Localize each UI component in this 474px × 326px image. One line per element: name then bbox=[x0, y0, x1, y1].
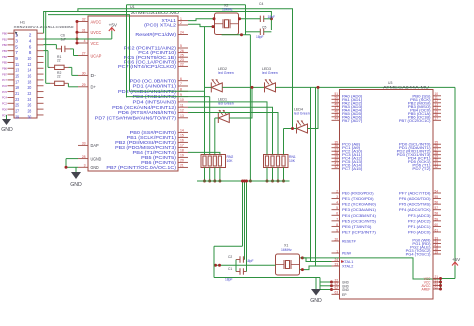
svg-text:RESET#: RESET# bbox=[342, 239, 356, 244]
svg-text:19: 19 bbox=[15, 85, 19, 90]
wire RN2 leg2 bbox=[209, 97, 211, 155]
svg-text:22: 22 bbox=[28, 91, 32, 96]
svg-text:23: 23 bbox=[180, 58, 184, 62]
LED LED3 bbox=[262, 67, 278, 92]
svg-text:32: 32 bbox=[82, 18, 86, 22]
wire RN2 leg1 bbox=[204, 27, 206, 155]
svg-text:60: 60 bbox=[435, 223, 439, 227]
wire RN1 leg4 bbox=[283, 129, 285, 155]
svg-text:9: 9 bbox=[336, 228, 338, 232]
svg-text:21: 21 bbox=[15, 91, 19, 96]
svg-text:5: 5 bbox=[180, 44, 182, 48]
svg-text:AREF: AREF bbox=[422, 287, 431, 292]
svg-text:PB4: PB4 bbox=[2, 55, 7, 59]
wire +5V red feed U1 bbox=[76, 20, 79, 45]
svg-text:8: 8 bbox=[336, 223, 338, 227]
svg-text:PF5 (ADC5/TMS): PF5 (ADC5/TMS) bbox=[399, 202, 431, 207]
svg-text:PB7 (PCINT7/OC.0A/OC.1C): PB7 (PCINT7/OC.0A/OC.1C) bbox=[106, 165, 176, 170]
svg-text:2: 2 bbox=[29, 33, 32, 38]
svg-text:PG4 (TOSC1): PG4 (TOSC1) bbox=[406, 252, 432, 257]
svg-text:22: 22 bbox=[57, 75, 61, 79]
svg-text:5: 5 bbox=[336, 206, 338, 210]
svg-text:14: 14 bbox=[28, 68, 32, 73]
svg-text:30: 30 bbox=[28, 114, 32, 119]
svg-text:C2: C2 bbox=[228, 255, 232, 259]
svg-text:29: 29 bbox=[82, 83, 86, 87]
wire LED1 cathode bbox=[215, 117, 219, 119]
svg-text:XTAL2: XTAL2 bbox=[342, 264, 354, 269]
svg-text:GND: GND bbox=[1, 127, 13, 133]
svg-text:24: 24 bbox=[28, 97, 32, 102]
svg-text:PC7 (A15): PC7 (A15) bbox=[342, 166, 363, 171]
wire RN1 leg3 / PD6 bbox=[188, 113, 278, 155]
svg-text:20: 20 bbox=[334, 237, 338, 241]
svg-text:58: 58 bbox=[435, 212, 439, 216]
svg-text:15: 15 bbox=[180, 134, 184, 138]
svg-text:7: 7 bbox=[336, 217, 338, 221]
svg-text:DAP: DAP bbox=[91, 143, 99, 148]
wire PD2 strike bbox=[130, 90, 205, 92]
wire VCC trunk bbox=[302, 258, 440, 279]
svg-text:12: 12 bbox=[28, 62, 32, 67]
svg-text:24: 24 bbox=[180, 31, 184, 35]
svg-text:20: 20 bbox=[28, 85, 32, 90]
svg-text:PD5 (XCK/AIN4/PCINT12): PD5 (XCK/AIN4/PCINT12) bbox=[112, 105, 176, 110]
svg-text:led Green: led Green bbox=[218, 71, 234, 75]
wire XTAL1 riser bbox=[310, 87, 312, 261]
svg-text:PE4 (OC3B/INT4): PE4 (OC3B/INT4) bbox=[342, 213, 377, 218]
svg-text:1: 1 bbox=[336, 249, 338, 253]
wire bottom frame bbox=[214, 246, 320, 277]
svg-text:27: 27 bbox=[82, 52, 86, 56]
svg-text:1: 1 bbox=[15, 33, 18, 38]
wire +5V rail right bbox=[439, 87, 455, 290]
svg-text:PF2 (ADC2): PF2 (ADC2) bbox=[408, 218, 431, 223]
power +5V (U2) bbox=[452, 257, 461, 266]
svg-text:6: 6 bbox=[180, 77, 182, 81]
wire trunk T1 bbox=[78, 9, 297, 129]
svg-text:21: 21 bbox=[180, 164, 184, 168]
wire XTAL2 riser bbox=[315, 87, 317, 266]
svg-text:18: 18 bbox=[28, 79, 32, 84]
svg-text:PC2: PC2 bbox=[2, 102, 8, 106]
U2 left pins bbox=[332, 92, 377, 297]
svg-text:33: 33 bbox=[82, 142, 86, 146]
svg-text:7: 7 bbox=[180, 82, 182, 86]
svg-text:PC7: PC7 bbox=[2, 78, 8, 82]
LED LED4 bbox=[294, 108, 310, 134]
svg-text:3: 3 bbox=[15, 38, 18, 43]
svg-text:57: 57 bbox=[435, 206, 439, 210]
svg-text:D-: D- bbox=[91, 73, 97, 78]
svg-text:28: 28 bbox=[82, 155, 86, 159]
svg-text:UGND: UGND bbox=[91, 156, 102, 161]
svg-text:D+: D+ bbox=[91, 85, 97, 90]
U1 left pins bbox=[78, 18, 102, 170]
wire +5V rail bbox=[44, 38, 112, 40]
svg-text:PF6 (ADC6/TDO): PF6 (ADC6/TDO) bbox=[399, 196, 431, 201]
svg-text:44: 44 bbox=[334, 117, 338, 121]
wire C1 right drop bbox=[245, 180, 248, 272]
svg-text:12: 12 bbox=[180, 109, 184, 113]
wire caps left join bbox=[235, 260, 237, 272]
svg-text:PD6 (RTS#/AIN5/INT6): PD6 (RTS#/AIN5/INT6) bbox=[118, 110, 177, 115]
svg-text:18pF: 18pF bbox=[246, 259, 254, 263]
svg-text:AVCC: AVCC bbox=[91, 19, 102, 24]
LED LED2 bbox=[211, 67, 233, 92]
op-amp U1 ATMEGA16U2-MU box bbox=[88, 5, 179, 171]
wire LED4 cathode bbox=[284, 127, 297, 130]
svg-text:GND: GND bbox=[91, 165, 100, 170]
wire X2 ground bbox=[222, 5, 251, 37]
svg-text:3: 3 bbox=[336, 195, 338, 199]
svg-text:4: 4 bbox=[336, 201, 338, 205]
resistor network RN2 bbox=[201, 155, 233, 183]
svg-text:UCAP: UCAP bbox=[91, 53, 102, 58]
svg-text:23: 23 bbox=[15, 97, 19, 102]
svg-text:18: 18 bbox=[180, 149, 184, 153]
wire LED2 cathode bbox=[205, 86, 212, 88]
svg-text:PE7 (ICP3/INT7): PE7 (ICP3/INT7) bbox=[342, 229, 377, 234]
wire LED4 anode bbox=[308, 86, 320, 129]
crystal X2 bbox=[215, 3, 239, 34]
svg-text:H1: H1 bbox=[20, 20, 26, 25]
wire R1/D- bbox=[44, 51, 79, 76]
wire X1 left pad bbox=[214, 264, 276, 267]
svg-text:14: 14 bbox=[180, 129, 184, 133]
wire trunk T0 bbox=[127, 4, 246, 6]
capacitor C2 bbox=[228, 255, 254, 263]
svg-text:PF4 (ADC4/TCK): PF4 (ADC4/TCK) bbox=[399, 207, 431, 212]
LED LED1 bbox=[218, 98, 234, 124]
wire trunk T3 bbox=[48, 15, 130, 92]
svg-text:31: 31 bbox=[82, 29, 86, 33]
svg-text:PD1 (AIN0/INT1): PD1 (AIN0/INT1) bbox=[133, 84, 177, 89]
wire ground trunk bbox=[197, 180, 290, 182]
svg-text:PD0: PD0 bbox=[2, 107, 8, 111]
svg-text:1uF: 1uF bbox=[61, 38, 67, 42]
svg-text:63: 63 bbox=[334, 291, 338, 295]
svg-text:C1: C1 bbox=[228, 267, 232, 271]
svg-text:25: 25 bbox=[15, 103, 19, 108]
svg-text:PB1: PB1 bbox=[2, 37, 7, 41]
svg-text:PB0: PB0 bbox=[2, 32, 7, 36]
svg-text:EP: EP bbox=[342, 292, 347, 297]
svg-text:PE1 (TXD0/PDI): PE1 (TXD0/PDI) bbox=[342, 196, 374, 201]
svg-text:42: 42 bbox=[334, 165, 338, 169]
svg-text:PE2 (XCK0/AIN0): PE2 (XCK0/AIN0) bbox=[342, 202, 377, 207]
wire LED1 anode bbox=[229, 86, 253, 118]
wire PD3 strike bbox=[127, 96, 210, 98]
wire X1 to XTAL2 bbox=[300, 266, 332, 271]
wire frame drop bbox=[241, 180, 244, 247]
svg-text:62: 62 bbox=[435, 285, 439, 289]
svg-text:PD7 (T2): PD7 (T2) bbox=[412, 166, 431, 171]
crystal X1 bbox=[276, 243, 300, 275]
svg-text:13: 13 bbox=[180, 114, 184, 118]
svg-text:26: 26 bbox=[28, 103, 32, 108]
capacitor C6 bbox=[56, 34, 70, 53]
wire LED2 anode bbox=[222, 86, 264, 88]
svg-text:+5V: +5V bbox=[109, 23, 118, 28]
svg-text:X1: X1 bbox=[284, 243, 288, 247]
svg-text:24: 24 bbox=[334, 258, 338, 262]
svg-text:26: 26 bbox=[180, 49, 184, 53]
wire PD3 riser bbox=[126, 5, 128, 98]
ground (U1) bbox=[65, 159, 83, 188]
svg-text:15: 15 bbox=[15, 73, 19, 78]
svg-text:4: 4 bbox=[29, 38, 32, 43]
svg-text:+5V: +5V bbox=[452, 257, 461, 262]
svg-text:PD7 (CTS#/HWB#/AIN6/TO/INT7): PD7 (CTS#/HWB#/AIN6/TO/INT7) bbox=[95, 115, 177, 120]
svg-text:GND: GND bbox=[70, 182, 82, 188]
svg-text:11: 11 bbox=[180, 103, 184, 107]
svg-text:PE6 (T3/INT6): PE6 (T3/INT6) bbox=[342, 224, 372, 229]
resistor network RN1 bbox=[264, 155, 296, 183]
svg-text:PB6: PB6 bbox=[2, 67, 7, 71]
svg-text:7: 7 bbox=[15, 50, 18, 55]
svg-text:PF1 (ADC1): PF1 (ADC1) bbox=[408, 224, 431, 229]
capacitor C4 bbox=[238, 2, 275, 22]
svg-text:10K: 10K bbox=[289, 159, 296, 163]
svg-text:16: 16 bbox=[180, 139, 184, 143]
wire X2 gnd drop bbox=[249, 35, 252, 183]
svg-text:29: 29 bbox=[15, 114, 19, 119]
wire U2 gnd feed bbox=[320, 278, 333, 292]
svg-text:led Green: led Green bbox=[294, 112, 310, 116]
wire XTAL2 to X2 bbox=[188, 24, 215, 28]
svg-text:61: 61 bbox=[435, 228, 439, 232]
U2 XTAL1 pin arrow bbox=[341, 260, 344, 263]
svg-text:PEN#: PEN# bbox=[342, 251, 352, 256]
svg-text:18pF: 18pF bbox=[256, 35, 264, 39]
svg-text:C5: C5 bbox=[262, 26, 266, 30]
svg-text:23: 23 bbox=[334, 262, 338, 266]
svg-text:led Green: led Green bbox=[262, 71, 278, 75]
svg-text:16MHz: 16MHz bbox=[281, 248, 292, 252]
svg-text:PB7 (OC2/OC1C): PB7 (OC2/OC1C) bbox=[399, 118, 431, 123]
svg-text:59: 59 bbox=[435, 217, 439, 221]
svg-text:27: 27 bbox=[15, 109, 19, 114]
svg-text:10: 10 bbox=[180, 98, 184, 102]
svg-text:18pF: 18pF bbox=[225, 278, 233, 282]
svg-text:19: 19 bbox=[180, 154, 184, 158]
connector H1 bbox=[2, 20, 74, 120]
capacitor C1 bbox=[225, 267, 247, 282]
svg-text:2: 2 bbox=[336, 189, 338, 193]
svg-text:6: 6 bbox=[29, 44, 32, 49]
svg-text:54: 54 bbox=[435, 189, 439, 193]
svg-text:19: 19 bbox=[435, 250, 439, 254]
svg-text:4: 4 bbox=[84, 39, 86, 43]
svg-text:PB2: PB2 bbox=[2, 43, 7, 47]
wire RN1 leg2 / PD5 bbox=[188, 107, 273, 154]
svg-text:PB5: PB5 bbox=[2, 61, 7, 65]
svg-text:17: 17 bbox=[15, 79, 19, 84]
svg-text:1: 1 bbox=[180, 17, 182, 21]
svg-text:8: 8 bbox=[29, 50, 32, 55]
svg-text:30: 30 bbox=[82, 72, 86, 76]
U1 right pins bbox=[95, 17, 188, 170]
svg-text:U3: U3 bbox=[388, 81, 392, 85]
svg-text:PD4 (INT5/AIN3): PD4 (INT5/AIN3) bbox=[133, 100, 177, 105]
svg-text:GND: GND bbox=[310, 298, 322, 304]
wire XTAL1 to X2 bbox=[188, 17, 216, 20]
svg-text:VCC: VCC bbox=[91, 41, 100, 46]
svg-text:PF0 (ADC0): PF0 (ADC0) bbox=[408, 229, 431, 234]
svg-text:9: 9 bbox=[15, 56, 18, 61]
svg-text:PD0 (OC.0B/INT0): PD0 (OC.0B/INT0) bbox=[130, 78, 177, 83]
svg-text:PF7 (ADC7/TDI): PF7 (ADC7/TDI) bbox=[399, 191, 431, 196]
svg-text:10K: 10K bbox=[227, 159, 234, 163]
svg-text:28: 28 bbox=[28, 109, 32, 114]
wire RN2 leg4 / PB4 bbox=[188, 152, 220, 154]
wire RN2 leg3 bbox=[214, 118, 216, 155]
wire RN1 leg1 / PD4 bbox=[188, 102, 267, 155]
svg-text:PF3 (ADC3): PF3 (ADC3) bbox=[408, 213, 431, 218]
svg-text:17: 17 bbox=[180, 144, 184, 148]
wire LED3 anode trunk bbox=[276, 86, 456, 88]
svg-text:13: 13 bbox=[15, 68, 19, 73]
svg-text:17: 17 bbox=[435, 117, 439, 121]
svg-text:PE5 (OC3C/INT5): PE5 (OC3C/INT5) bbox=[342, 218, 377, 223]
power +5V (U1) bbox=[109, 23, 118, 40]
svg-text:25: 25 bbox=[180, 53, 184, 57]
svg-text:PE3 (OC3A/AIN1): PE3 (OC3A/AIN1) bbox=[342, 207, 377, 212]
svg-text:(PC0) XTAL2: (PC0) XTAL2 bbox=[144, 23, 176, 28]
svg-text:20: 20 bbox=[180, 159, 184, 163]
svg-text:62: 62 bbox=[334, 286, 338, 290]
wire C2 right drop bbox=[243, 180, 246, 260]
svg-text:PC4: PC4 bbox=[2, 96, 8, 100]
svg-text:PA7 (AD7): PA7 (AD7) bbox=[342, 118, 363, 123]
resistor R1 bbox=[50, 55, 69, 70]
svg-text:22: 22 bbox=[57, 59, 61, 63]
svg-text:16: 16 bbox=[28, 73, 32, 78]
svg-text:6: 6 bbox=[336, 212, 338, 216]
svg-text:32: 32 bbox=[435, 165, 439, 169]
svg-text:PC6: PC6 bbox=[2, 84, 8, 88]
wire X1 to XTAL1 bbox=[300, 256, 332, 261]
svg-text:3: 3 bbox=[84, 164, 86, 168]
ground (U2) bbox=[310, 278, 322, 305]
svg-text:5: 5 bbox=[15, 44, 18, 49]
svg-text:11: 11 bbox=[15, 62, 19, 67]
svg-text:55: 55 bbox=[435, 195, 439, 199]
svg-text:PC5: PC5 bbox=[2, 90, 8, 94]
wire trunk T2 bbox=[44, 12, 273, 34]
svg-text:C4: C4 bbox=[259, 2, 263, 6]
wire C6/UCAP bbox=[44, 45, 79, 56]
svg-text:Reset#(PC1/dW): Reset#(PC1/dW) bbox=[135, 32, 176, 37]
svg-text:PB7: PB7 bbox=[2, 72, 7, 76]
svg-text:PB3: PB3 bbox=[2, 49, 7, 53]
svg-text:10: 10 bbox=[28, 56, 32, 61]
svg-text:2: 2 bbox=[180, 21, 182, 25]
svg-text:UVCC: UVCC bbox=[91, 30, 102, 35]
svg-text:22: 22 bbox=[180, 63, 184, 67]
svg-text:56: 56 bbox=[435, 201, 439, 205]
svg-text:16MHz: 16MHz bbox=[222, 8, 233, 12]
resistor R2 bbox=[50, 71, 68, 86]
op-amp U2 ATMEGA644A box bbox=[340, 81, 434, 299]
wire R2/D+ bbox=[46, 12, 78, 87]
ground (H1) bbox=[1, 115, 13, 133]
U2 right pins bbox=[397, 92, 441, 291]
capacitor C5 bbox=[246, 26, 272, 39]
svg-text:PE0 (RXD0/PDO): PE0 (RXD0/PDO) bbox=[342, 191, 374, 196]
